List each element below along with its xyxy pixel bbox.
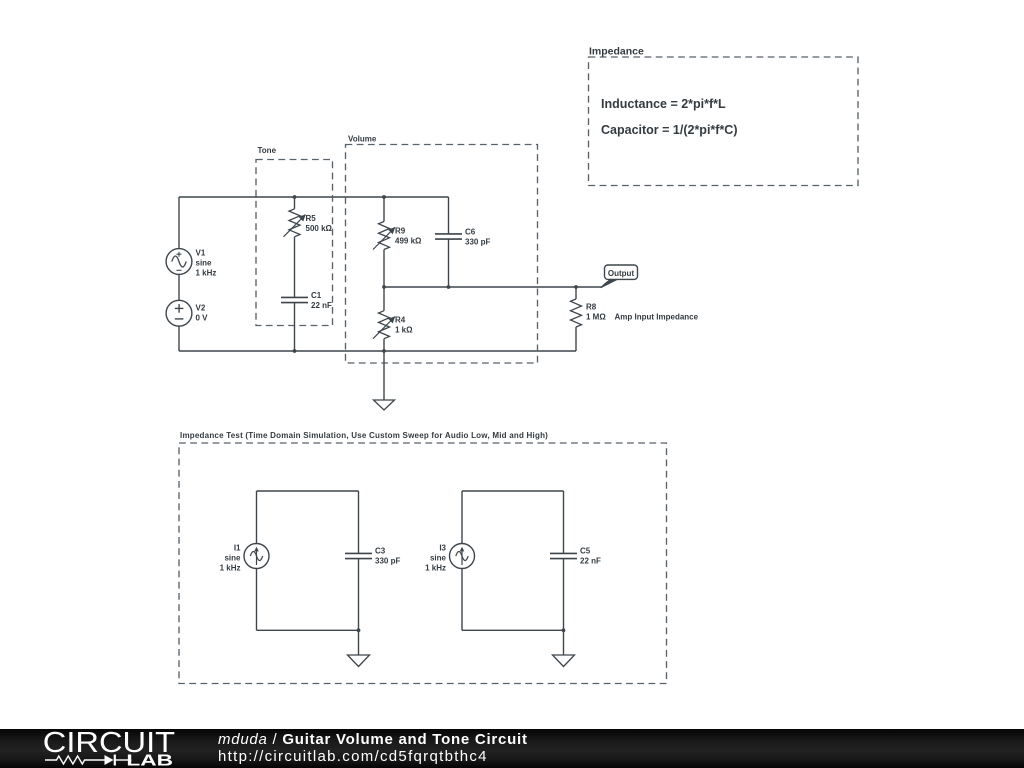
svg-text:LAB: LAB [126, 752, 173, 768]
svg-text:1 kHz: 1 kHz [196, 269, 217, 278]
wire middle rail [384, 286, 603, 288]
svg-text:sine: sine [430, 554, 447, 563]
current source I3 [425, 544, 474, 573]
svg-text:330 pF: 330 pF [375, 557, 400, 566]
ground under R4 [374, 351, 395, 410]
output flag [601, 265, 638, 288]
svg-text:Tone: Tone [258, 146, 277, 155]
svg-text:C5: C5 [580, 547, 591, 556]
potentiometer R4 [373, 311, 413, 339]
junction test1 bottom / C3-ground [357, 628, 361, 632]
wire R9 upper lead [383, 197, 385, 222]
svg-text:C3: C3 [375, 547, 386, 556]
footer title text [218, 731, 528, 766]
svg-text:Volume: Volume [348, 135, 377, 144]
wire C6 lower lead [448, 239, 450, 287]
junction middle wire / R9-R4 [382, 285, 386, 289]
svg-text:V2: V2 [196, 304, 206, 313]
svg-text:330 pF: 330 pF [465, 237, 490, 246]
wire R8 lower lead [575, 327, 577, 351]
footer bar [0, 729, 1024, 768]
wire R4 lower lead [383, 339, 385, 351]
svg-text:500 kΩ: 500 kΩ [306, 224, 333, 233]
ground test1 [348, 630, 370, 666]
wire C3 lower lead [358, 559, 360, 631]
wire test2 top rail [462, 490, 564, 492]
svg-text:Output: Output [608, 269, 635, 278]
svg-text:1 MΩ: 1 MΩ [586, 313, 606, 322]
svg-text:499 kΩ: 499 kΩ [395, 237, 422, 246]
svg-text:R4: R4 [395, 316, 406, 325]
svg-text:sine: sine [196, 259, 213, 268]
wire C5 lower lead [563, 559, 565, 631]
svg-text:Impedance: Impedance [589, 46, 644, 58]
svg-text:sine: sine [224, 554, 241, 563]
svg-text:1 kΩ: 1 kΩ [395, 326, 413, 335]
Impedance Test group box [179, 431, 667, 684]
wire test1 left lower [256, 569, 258, 631]
svg-text:Capacitor = 1/(2*pi*f*C): Capacitor = 1/(2*pi*f*C) [601, 123, 738, 137]
voltage source V2 [166, 300, 208, 326]
svg-text:22 nF: 22 nF [311, 301, 332, 310]
potentiometer R5 [284, 209, 333, 237]
potentiometer R9 [373, 222, 422, 250]
junction top wire / R5 [293, 195, 297, 199]
svg-text:Impedance Test (Time Domain Si: Impedance Test (Time Domain Simulation, … [180, 431, 548, 440]
wire top rail [179, 196, 449, 198]
Volume group box [346, 135, 538, 364]
svg-text:R5: R5 [306, 214, 317, 223]
junction bottom wire / R4-ground [382, 349, 386, 353]
resistor R8 [571, 299, 699, 327]
Tone group box [256, 146, 333, 326]
voltage source V1 [166, 249, 216, 278]
capacitor C1 [281, 291, 332, 310]
svg-text:R8: R8 [586, 303, 597, 312]
wire C3 upper lead [358, 491, 360, 553]
svg-text:C6: C6 [465, 227, 476, 236]
current source I1 [220, 544, 269, 573]
wire test2 left upper [461, 491, 463, 544]
capacitor C6 [435, 227, 490, 246]
junction middle wire / C6 [447, 285, 451, 289]
svg-text:I3: I3 [439, 544, 446, 553]
svg-text:V1: V1 [196, 249, 206, 258]
Impedance note box [589, 46, 859, 186]
wire C6 upper lead [448, 197, 450, 234]
wire between V1 and V2 [178, 274, 180, 301]
wire test1 top rail [257, 490, 359, 492]
svg-text:22 nF: 22 nF [580, 557, 601, 566]
wire left rail lower [178, 326, 180, 351]
svg-text:1 kHz: 1 kHz [220, 564, 241, 573]
wire C5 upper lead [563, 491, 565, 553]
junction middle wire / R8 (Output node) [574, 285, 578, 289]
wire R5 to C1 [294, 237, 296, 298]
wire left rail upper [178, 197, 180, 249]
capacitor C5 [550, 547, 601, 566]
svg-text:0 V: 0 V [196, 314, 209, 323]
wire tone branch upper lead [294, 197, 296, 209]
junction top wire / R9 [382, 195, 386, 199]
svg-text:R9: R9 [395, 227, 406, 236]
ground test2 [553, 630, 575, 666]
CircuitLab logo [0, 729, 200, 768]
wire test2 left lower [461, 569, 463, 631]
svg-text:I1: I1 [234, 544, 241, 553]
junction test2 bottom / C5-ground [562, 628, 566, 632]
svg-text:Amp Input Impedance: Amp Input Impedance [615, 313, 699, 322]
wire R8 upper lead [575, 287, 577, 299]
wire R9 lower lead [383, 250, 385, 288]
wire test1 bottom rail [257, 629, 359, 631]
wire R4 upper lead [383, 287, 385, 311]
wire test1 left upper [256, 491, 258, 544]
svg-text:C1: C1 [311, 291, 322, 300]
svg-text:1 kHz: 1 kHz [425, 564, 446, 573]
wire test2 bottom rail [462, 629, 564, 631]
svg-text:Inductance = 2*pi*f*L: Inductance = 2*pi*f*L [601, 97, 726, 111]
wire bottom rail [179, 350, 576, 352]
wire C1 to bottom rail [294, 303, 296, 351]
capacitor C3 [345, 547, 400, 566]
junction bottom wire / C1 [293, 349, 297, 353]
